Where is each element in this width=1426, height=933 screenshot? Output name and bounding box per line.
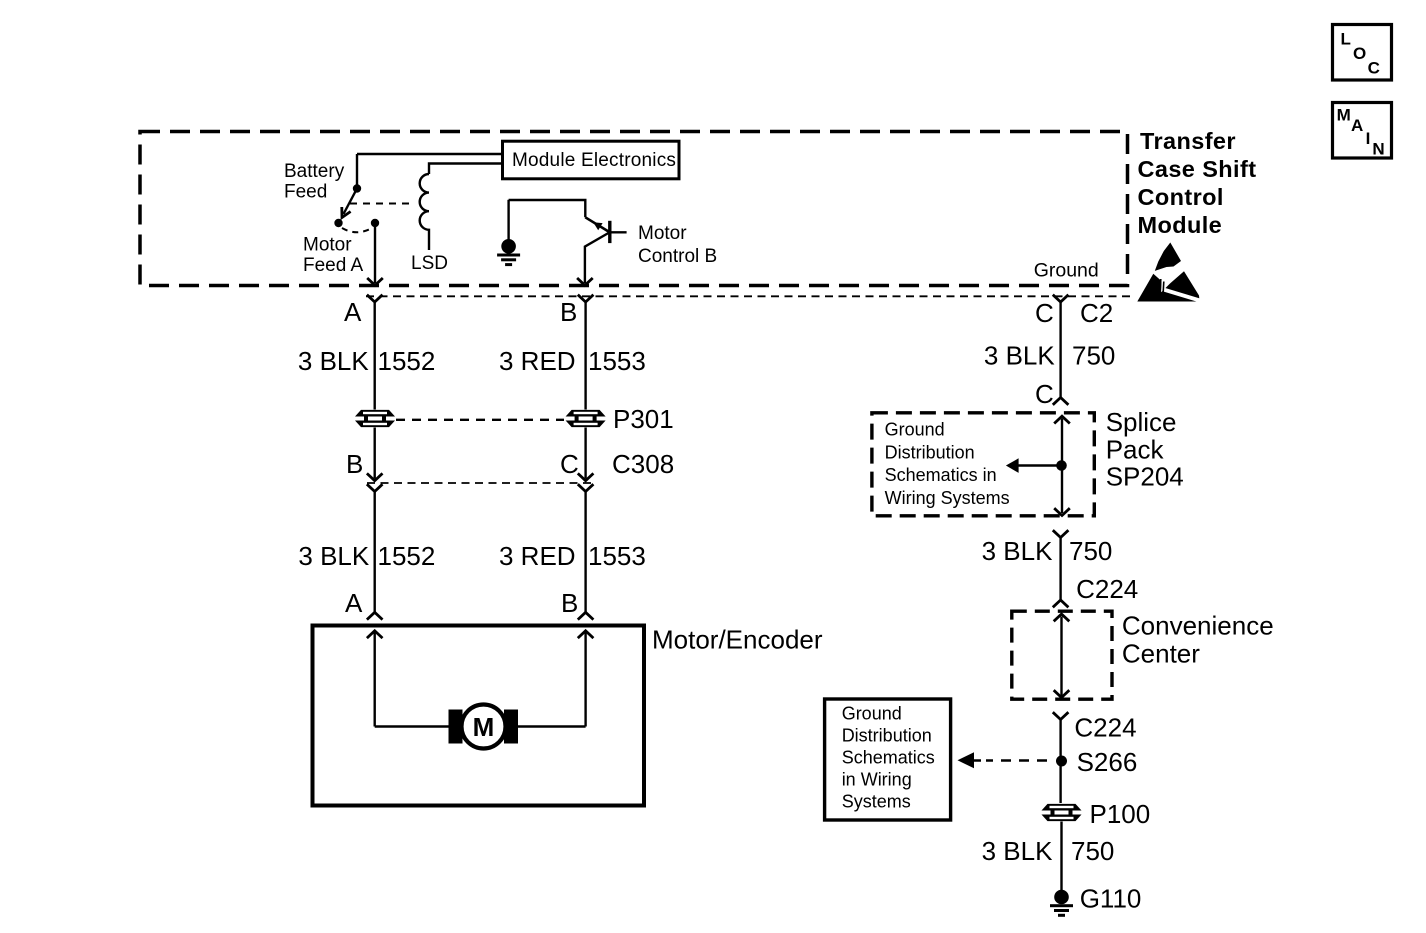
svg-text:A: A (1351, 116, 1363, 135)
svg-text:M: M (473, 712, 495, 742)
svg-text:Schematics: Schematics (842, 748, 935, 768)
svg-text:3 BLK: 3 BLK (982, 836, 1053, 866)
svg-text:B: B (560, 297, 577, 327)
svg-text:A: A (345, 588, 363, 618)
svg-text:750: 750 (1071, 836, 1114, 866)
svg-text:Convenience: Convenience (1122, 611, 1274, 641)
svg-text:1552: 1552 (378, 541, 436, 571)
svg-text:C2: C2 (1080, 298, 1113, 328)
svg-text:3 BLK: 3 BLK (982, 536, 1053, 566)
svg-text:Distribution: Distribution (842, 726, 932, 746)
svg-text:N: N (1372, 139, 1384, 158)
svg-text:S266: S266 (1077, 747, 1138, 777)
svg-text:Case Shift: Case Shift (1138, 156, 1257, 182)
svg-text:Transfer: Transfer (1140, 128, 1236, 154)
svg-text:C308: C308 (612, 449, 674, 479)
svg-text:C: C (1035, 379, 1054, 409)
svg-text:Center: Center (1122, 639, 1200, 669)
svg-text:Module Electronics: Module Electronics (512, 150, 676, 171)
svg-text:3 BLK: 3 BLK (984, 341, 1055, 371)
svg-text:LSD: LSD (411, 253, 448, 274)
svg-text:Systems: Systems (842, 792, 911, 812)
svg-text:1553: 1553 (588, 346, 646, 376)
svg-text:Pack: Pack (1106, 435, 1165, 465)
svg-text:Splice: Splice (1106, 407, 1177, 437)
svg-text:in Wiring: in Wiring (842, 770, 912, 790)
svg-text:G110: G110 (1080, 883, 1142, 913)
svg-text:750: 750 (1069, 536, 1112, 566)
svg-text:C: C (1035, 298, 1054, 328)
svg-text:3 BLK: 3 BLK (298, 346, 369, 376)
svg-text:Motor/Encoder: Motor/Encoder (652, 625, 823, 655)
svg-text:1553: 1553 (588, 541, 646, 571)
svg-text:Schematics in: Schematics in (885, 465, 997, 485)
svg-text:Wiring Systems: Wiring Systems (885, 488, 1010, 508)
svg-text:M: M (1337, 106, 1351, 125)
svg-text:Ground: Ground (885, 420, 945, 440)
svg-text:Module: Module (1138, 212, 1223, 238)
svg-text:B: B (346, 449, 363, 479)
svg-text:P301: P301 (613, 404, 674, 434)
svg-text:Control: Control (1138, 184, 1224, 210)
svg-text:3 RED: 3 RED (499, 541, 576, 571)
svg-text:Control B: Control B (638, 246, 717, 267)
svg-text:Feed: Feed (284, 182, 327, 203)
svg-text:Battery: Battery (284, 161, 345, 182)
svg-text:Ground: Ground (842, 704, 902, 724)
svg-text:SP204: SP204 (1106, 462, 1184, 492)
svg-text:Motor: Motor (303, 235, 352, 256)
svg-text:C: C (1368, 58, 1380, 77)
svg-text:I: I (1366, 129, 1371, 148)
svg-text:A: A (344, 297, 362, 327)
svg-text:C: C (560, 449, 579, 479)
svg-text:3 BLK: 3 BLK (298, 541, 369, 571)
svg-text:Feed A: Feed A (303, 255, 364, 276)
svg-text:750: 750 (1072, 341, 1115, 371)
svg-text:C224: C224 (1076, 574, 1138, 604)
svg-text:3 RED: 3 RED (499, 346, 576, 376)
svg-text:Ground: Ground (1034, 260, 1099, 282)
svg-text:1552: 1552 (378, 346, 436, 376)
svg-text:B: B (561, 588, 578, 618)
svg-text:C224: C224 (1074, 712, 1136, 742)
svg-text:L: L (1341, 29, 1351, 48)
svg-text:Distribution: Distribution (885, 442, 975, 462)
svg-text:Motor: Motor (638, 223, 687, 244)
svg-text:P100: P100 (1090, 799, 1151, 829)
svg-text:O: O (1353, 44, 1366, 63)
